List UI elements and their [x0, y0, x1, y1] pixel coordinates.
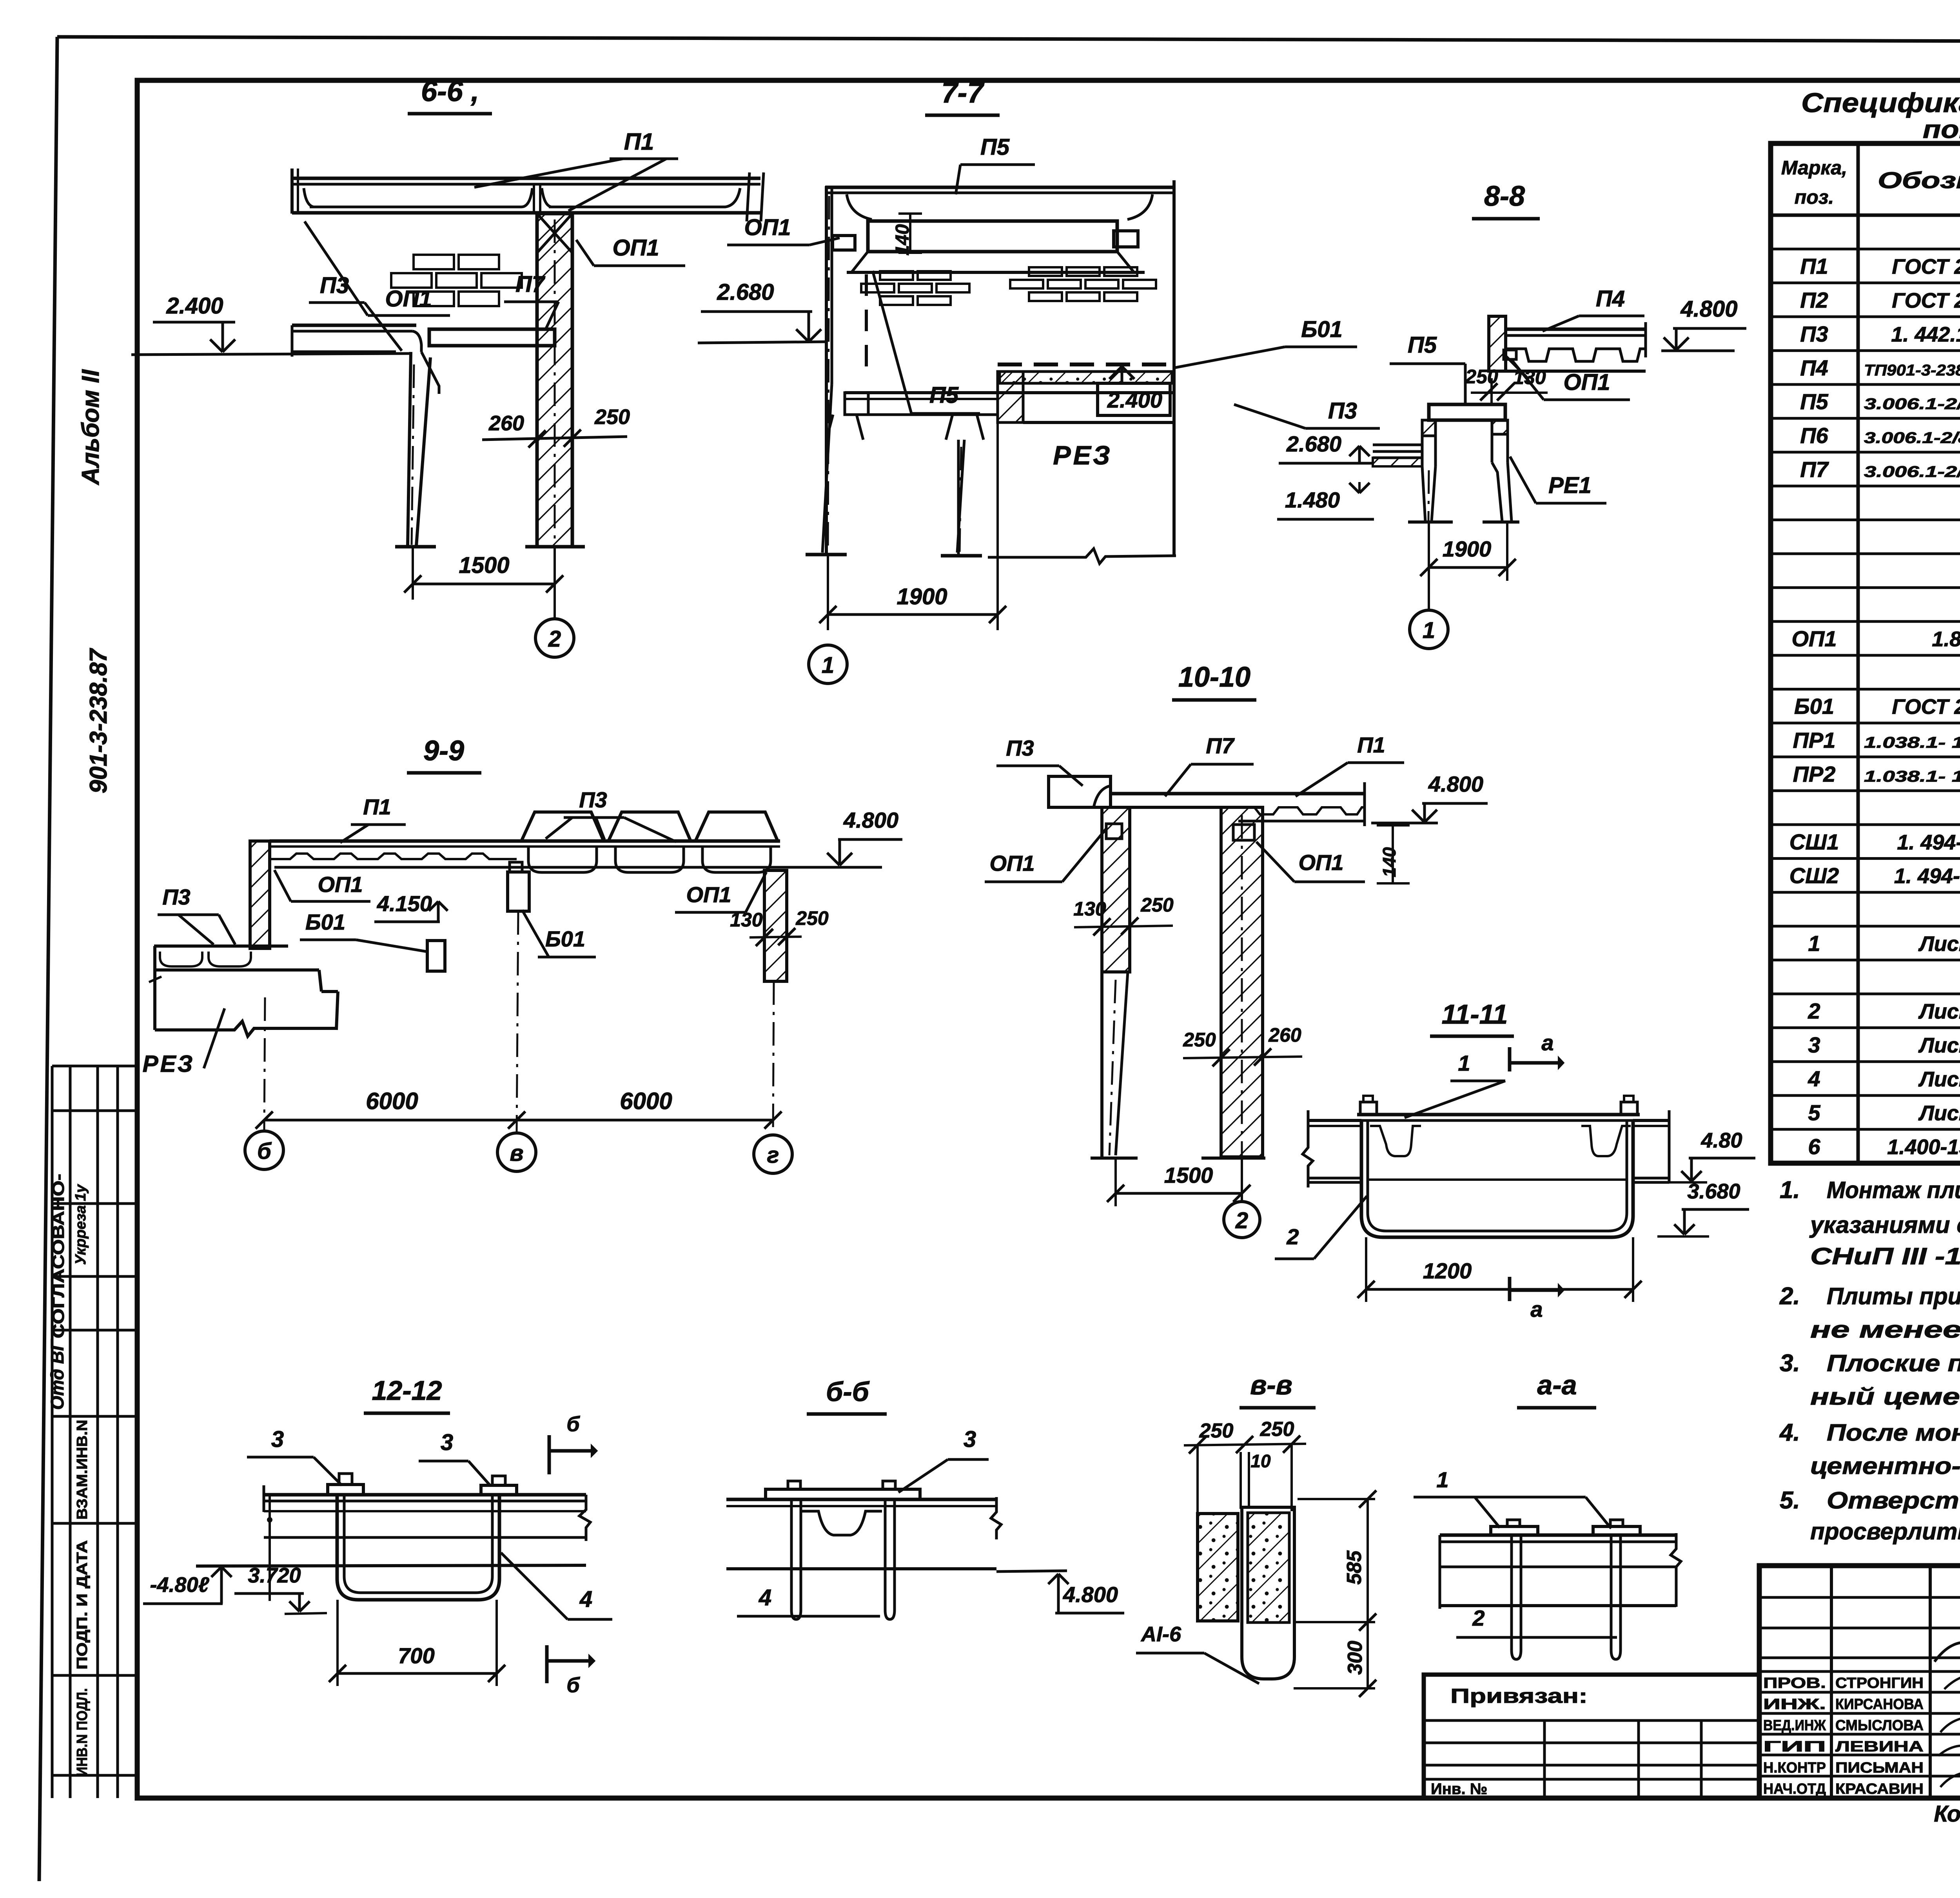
svg-text:П3: П3	[162, 885, 190, 909]
svg-text:Лист КЖ17: Лист КЖ17	[1918, 1101, 1960, 1125]
svg-text:3: 3	[271, 1427, 284, 1452]
notes text block	[1779, 1177, 1960, 1545]
svg-text:4.800: 4.800	[1063, 1582, 1118, 1607]
svg-text:П2: П2	[1800, 288, 1828, 312]
svg-text:250: 250	[1465, 366, 1498, 388]
svg-text:Б01: Б01	[1301, 317, 1343, 342]
svg-text:2.400: 2.400	[1107, 388, 1162, 412]
svg-text:П1: П1	[624, 129, 654, 155]
table header texts	[1781, 157, 1960, 208]
section 10-10 OP1 pad left	[1106, 824, 1122, 839]
section 8-8 right support column	[1492, 420, 1508, 434]
svg-text:П5: П5	[980, 134, 1010, 160]
svg-text:ПР2: ПР2	[1793, 761, 1836, 786]
svg-text:10: 10	[1250, 1451, 1271, 1471]
svg-text:СМЫСЛОВА: СМЫСЛОВА	[1835, 1717, 1924, 1734]
svg-text:ИНВ.N ПОДЛ.: ИНВ.N ПОДЛ.	[74, 1688, 91, 1777]
svg-text:Укрреза 1у: Укрреза 1у	[73, 1184, 89, 1265]
section 8-8 axis circle 1	[1428, 581, 1430, 611]
section 10-10 dim 1500	[1114, 1158, 1117, 1206]
svg-text:3.006.1-2/82.1-2-2.0-20: 3.006.1-2/82.1-2-2.0-20	[1864, 463, 1960, 480]
section 9-9 lower P3 plates	[154, 946, 319, 970]
svg-text:130: 130	[1073, 898, 1106, 920]
svg-text:1900: 1900	[1443, 537, 1492, 561]
svg-text:2.400: 2.400	[166, 293, 223, 319]
svg-text:9-9: 9-9	[423, 735, 464, 767]
svg-text:1.480: 1.480	[1285, 488, 1340, 512]
svg-text:3.680: 3.680	[1687, 1180, 1740, 1203]
section 7-7 beam B01 dashed	[998, 363, 1172, 366]
svg-text:1.869.1- 1: 1.869.1- 1	[1932, 627, 1960, 651]
svg-text:Монтаж плит производить в: Монтаж плит производить в соответствии с	[1827, 1177, 1960, 1203]
section 8-8 left support column	[1422, 420, 1436, 436]
section 9-9 axes dash-dot	[264, 997, 265, 1131]
svg-text:250: 250	[594, 405, 630, 429]
svg-text:-4.80ℓ: -4.80ℓ	[150, 1573, 210, 1597]
section 6-6 axis circle 2	[535, 619, 574, 657]
svg-text:ОП1: ОП1	[990, 851, 1035, 876]
svg-text:П5: П5	[1408, 332, 1437, 358]
svg-text:П7: П7	[1206, 733, 1235, 758]
section 7-7 slab P3	[998, 391, 1174, 394]
section 10-10 plate P3	[1049, 776, 1111, 807]
svg-text:6000: 6000	[366, 1088, 418, 1114]
svg-text:Инв. №: Инв. №	[1431, 1780, 1487, 1798]
section 7-7 bricks	[861, 271, 969, 305]
svg-text:П4: П4	[1596, 286, 1625, 312]
section b-b slab right break	[991, 1497, 1001, 1539]
svg-text:Лист КЖ17: Лист КЖ17	[1918, 1034, 1960, 1057]
section 7-7 ground line with break	[988, 549, 1176, 564]
svg-text:П7: П7	[515, 272, 546, 297]
svg-text:ГОСТ 22701.1- 77: ГОСТ 22701.1- 77	[1892, 255, 1960, 279]
section 11-11 slab left	[1308, 1119, 1361, 1122]
svg-text:4.150: 4.150	[377, 891, 432, 916]
svg-text:1: 1	[1458, 1051, 1470, 1075]
svg-text:а: а	[1530, 1297, 1543, 1322]
svg-text:1. 494- 24. Вып.1: 1. 494- 24. Вып.1	[1894, 865, 1960, 888]
section 10-10 right wall	[1221, 807, 1263, 1157]
section 7-7 right wall edge	[1172, 180, 1176, 557]
svg-text:ОП1: ОП1	[1299, 850, 1344, 875]
section 12-12 slab left end	[263, 1485, 265, 1512]
section b-b plate item 3	[766, 1489, 920, 1499]
svg-text:3.006.1-2/82.1-2-1.0-053: 3.006.1-2/82.1-2-1.0-053	[1864, 430, 1960, 447]
svg-text:цементно-песчаным раствором: цементно-песчаным раствором М150	[1810, 1453, 1960, 1479]
section 12-12 slab right break	[579, 1495, 590, 1541]
section 8-8 dim 1900	[1428, 522, 1430, 581]
section 6-6 dim 1500	[412, 547, 414, 600]
svg-text:140: 140	[1379, 847, 1399, 877]
svg-text:ИНЖ.: ИНЖ.	[1763, 1696, 1826, 1713]
svg-text:ТП901-3-238.87-КЖИ21.0.0.0: ТП901-3-238.87-КЖИ21.0.0.0	[1864, 362, 1960, 379]
svg-text:6000: 6000	[620, 1088, 672, 1114]
svg-text:ОП1: ОП1	[318, 872, 363, 897]
Привязан box	[1424, 1675, 1759, 1798]
svg-text:П1: П1	[1800, 254, 1828, 279]
section 9-9 right wall hatched	[764, 870, 787, 981]
svg-text:покрытия в осях 1÷3.: покрытия в осях 1÷3.	[1923, 115, 1960, 143]
svg-text:РЕ1: РЕ1	[1548, 473, 1592, 498]
svg-text:Обозначение: Обозначение	[1878, 168, 1960, 193]
svg-text:г: г	[767, 1142, 779, 1168]
svg-text:3.: 3.	[1780, 1350, 1800, 1377]
section 8-8 left floor slab	[1373, 444, 1422, 446]
svg-text:КИРСАНОВА: КИРСАНОВА	[1835, 1696, 1924, 1713]
svg-text:П3: П3	[1328, 398, 1357, 424]
section a-a slab edges	[1439, 1535, 1441, 1609]
svg-text:ПР1: ПР1	[1793, 728, 1836, 752]
section 6-6 wall hatched	[537, 214, 572, 547]
svg-text:1: 1	[1808, 931, 1820, 955]
section 6-6 slab P3 left	[292, 325, 439, 547]
svg-text:Лист КЖ17: Лист КЖ17	[1918, 1068, 1960, 1091]
svg-text:НАЧ.ОТД: НАЧ.ОТД	[1763, 1781, 1826, 1797]
svg-text:11-11: 11-11	[1442, 999, 1508, 1030]
svg-text:ЛЕВИНА: ЛЕВИНА	[1835, 1738, 1924, 1755]
section 11-11 section mark a top	[1508, 1047, 1512, 1071]
svg-text:просверлить по месту.: просверлить по месту.	[1810, 1518, 1960, 1545]
svg-text:3: 3	[1808, 1033, 1820, 1057]
svg-text:Н.КОНТР: Н.КОНТР	[1763, 1760, 1826, 1776]
svg-text:4.: 4.	[1779, 1419, 1800, 1446]
svg-text:4: 4	[1808, 1066, 1820, 1091]
svg-text:Отверстия в плитах для уста: Отверстия в плитах для установки подвесо…	[1827, 1487, 1960, 1514]
svg-text:Привязан:: Привязан:	[1450, 1685, 1588, 1708]
section 11-11 dim 1200	[1365, 1237, 1367, 1302]
svg-text:ный цементный раствор М100.: ный цементный раствор М100.	[1810, 1383, 1960, 1410]
svg-text:не менее, чем в 3х точках.: не менее, чем в 3х точках.	[1810, 1316, 1960, 1343]
svg-text:б-б: б-б	[826, 1376, 870, 1407]
svg-text:РЕЗ: РЕЗ	[143, 1051, 195, 1077]
svg-text:П1: П1	[1357, 732, 1385, 757]
svg-text:Б01: Б01	[545, 926, 585, 951]
section 10-10 left wall	[1102, 807, 1130, 972]
section 8-8 slab P5	[1429, 404, 1505, 420]
svg-text:250: 250	[1183, 1029, 1216, 1051]
svg-text:2: 2	[1472, 1606, 1485, 1630]
svg-text:б: б	[566, 1673, 580, 1697]
svg-text:1. 442.1- 2 .Вып.1: 1. 442.1- 2 .Вып.1	[1891, 323, 1960, 346]
section 8-8 slab P4 ribbed	[1504, 322, 1646, 371]
svg-text:б: б	[566, 1412, 580, 1436]
svg-text:Отд ВГ: Отд ВГ	[47, 1339, 67, 1410]
svg-text:П4: П4	[1800, 355, 1828, 380]
section 12-12 U-hanger	[337, 1495, 499, 1600]
section 9-9 slab P3 field with trapezoids	[517, 812, 780, 872]
svg-text:2: 2	[1235, 1208, 1248, 1233]
svg-text:а: а	[1541, 1030, 1553, 1055]
svg-text:ОП1: ОП1	[612, 235, 659, 261]
title block main frame	[1759, 1566, 1960, 1798]
section 10-10 axis circle 2	[1241, 1193, 1243, 1202]
svg-text:2: 2	[1286, 1224, 1299, 1249]
section 7-7 top slab P5	[825, 187, 1174, 272]
svg-text:12-12: 12-12	[372, 1375, 442, 1406]
section 7-7 left column	[825, 186, 828, 555]
svg-text:300: 300	[1344, 1641, 1367, 1675]
signatures squiggles	[1944, 1676, 1960, 1698]
svg-text:П3: П3	[1006, 736, 1034, 760]
svg-text:П3: П3	[1800, 321, 1828, 346]
table rows text	[1789, 219, 1960, 1166]
svg-text:Копировал:: Копировал:	[1934, 1801, 1960, 1827]
svg-text:ГОСТ 2.2701.2-77: ГОСТ 2.2701.2-77	[1892, 289, 1960, 312]
svg-text:1.038.1- 1.1 090000-01: 1.038.1- 1.1 090000-01	[1864, 768, 1960, 785]
svg-text:4.80: 4.80	[1700, 1129, 1742, 1152]
section a-a bolt plates	[1491, 1526, 1538, 1535]
section 12-12 section mark b top	[548, 1435, 551, 1474]
section 11-11 lid bolts	[1360, 1102, 1377, 1115]
svg-text:250: 250	[1140, 894, 1174, 916]
svg-text:2: 2	[548, 626, 561, 652]
svg-text:СШ2: СШ2	[1789, 863, 1839, 888]
svg-text:4: 4	[759, 1585, 771, 1610]
svg-text:КРАСАВИН: КРАСАВИН	[1835, 1781, 1924, 1797]
svg-text:250: 250	[795, 907, 829, 929]
sidebar stamp grid	[52, 1066, 137, 1798]
svg-text:П3: П3	[320, 273, 349, 298]
section 10-10 OP1 pad right	[1233, 825, 1254, 840]
svg-text:7-7: 7-7	[942, 76, 985, 109]
svg-text:6-6 ,: 6-6 ,	[421, 75, 479, 107]
section b-b slab lines	[726, 1498, 996, 1501]
svg-text:130: 130	[1513, 366, 1546, 388]
section 9-9 beam B01 at axis B	[508, 872, 529, 911]
section 9-9 REZ wall	[149, 946, 338, 1036]
svg-text:1.: 1.	[1780, 1177, 1800, 1204]
svg-text:Плиты приварить к закладным: Плиты приварить к закладным деталям опор	[1827, 1283, 1960, 1309]
section 8-8 wall hatched	[1489, 316, 1506, 371]
title block personnel rows	[1759, 1671, 1960, 1776]
svg-text:ВЗАМ.ИНВ.N: ВЗАМ.ИНВ.N	[74, 1420, 91, 1520]
svg-text:ОП1: ОП1	[1792, 626, 1837, 651]
section 10-10 slab P7	[1111, 792, 1238, 796]
section v-v extension lines	[1196, 1445, 1199, 1514]
section 7-7 hidden wall dashed	[865, 274, 868, 374]
title block upper-left rows	[1759, 1596, 1960, 1599]
section 9-9 dim 6000+6000	[264, 1119, 773, 1122]
svg-text:После монтажа швы между пл: После монтажа швы между плитами залить	[1827, 1419, 1960, 1446]
svg-text:РЕЗ: РЕЗ	[1053, 441, 1112, 470]
svg-text:П5: П5	[929, 383, 959, 408]
section b-b rib void	[802, 1511, 882, 1535]
section 7-7 level 2.400 boxed	[1098, 383, 1170, 415]
svg-text:Альбом II: Альбом II	[77, 369, 104, 486]
svg-text:700: 700	[398, 1643, 434, 1668]
svg-text:2.: 2.	[1779, 1283, 1800, 1310]
section 11-11 tank body	[1361, 1120, 1633, 1237]
section a-a hanger rods	[1512, 1535, 1521, 1659]
svg-text:ПОДП. И ДАТА: ПОДП. И ДАТА	[74, 1540, 91, 1670]
svg-text:поз.: поз.	[1795, 186, 1834, 208]
svg-text:3: 3	[441, 1430, 453, 1455]
svg-text:в: в	[510, 1140, 523, 1166]
svg-text:ОП1: ОП1	[1563, 370, 1610, 395]
svg-text:ПИСЬМАН: ПИСЬМАН	[1835, 1760, 1924, 1776]
svg-text:СТРОНГИН: СТРОНГИН	[1835, 1675, 1924, 1691]
svg-text:6: 6	[1808, 1134, 1820, 1159]
svg-text:5.: 5.	[1780, 1487, 1800, 1514]
svg-text:2: 2	[1808, 999, 1820, 1023]
svg-text:а-а: а-а	[1537, 1370, 1577, 1400]
section 6-6 slab P7	[429, 329, 555, 346]
section 11-11 tank lid	[1357, 1113, 1640, 1117]
title block verticals	[1830, 1566, 1833, 1798]
svg-text:П3: П3	[579, 787, 607, 812]
svg-text:2.680: 2.680	[1286, 431, 1341, 456]
section 11-11 slab ribs inside	[1370, 1126, 1421, 1156]
svg-text:3: 3	[964, 1427, 976, 1452]
svg-text:260: 260	[1268, 1024, 1301, 1046]
svg-text:4.800: 4.800	[1680, 296, 1737, 322]
svg-text:б: б	[257, 1138, 272, 1164]
svg-text:1: 1	[1436, 1467, 1448, 1492]
svg-text:Лист КЖ17: Лист КЖ17	[1918, 1000, 1960, 1023]
svg-text:Лист КЖ17: Лист КЖ17	[1918, 932, 1960, 955]
svg-text:СНиП III -16-80.: СНиП III -16-80.	[1810, 1243, 1960, 1269]
section v-v right concrete block	[1248, 1513, 1289, 1622]
svg-text:Б01: Б01	[1794, 694, 1834, 719]
outer page border top	[57, 37, 1960, 42]
outer page border left	[39, 37, 57, 1881]
svg-text:1.400-15.81.130-56: 1.400-15.81.130-56	[1887, 1135, 1960, 1159]
svg-text:СШ1: СШ1	[1789, 829, 1839, 854]
section 9-9 slab P1 field	[270, 841, 882, 867]
section a-a slab lines	[1440, 1534, 1676, 1537]
svg-text:4.800: 4.800	[1428, 772, 1483, 796]
svg-text:5: 5	[1808, 1100, 1820, 1125]
svg-text:901-3-238.87: 901-3-238.87	[85, 648, 112, 793]
svg-text:СОГЛАСОВАНО-: СОГЛАСОВАНО-	[49, 1174, 67, 1338]
section 12-12 slab lines	[264, 1493, 586, 1497]
svg-text:10-10: 10-10	[1178, 662, 1250, 693]
svg-text:П7: П7	[1800, 457, 1829, 482]
section 6-6 brick symbol	[391, 255, 522, 306]
section 7-7 beam hatched strip	[1000, 372, 1172, 383]
svg-text:1900: 1900	[897, 584, 947, 609]
section 7-7 axis circle 1	[809, 645, 847, 683]
svg-text:1500: 1500	[1164, 1163, 1213, 1187]
svg-text:ГИП: ГИП	[1763, 1738, 1826, 1755]
svg-text:ОП1: ОП1	[385, 286, 432, 312]
section 7-7 dim 1900	[827, 555, 829, 630]
svg-text:3.720: 3.720	[248, 1564, 301, 1587]
svg-text:1. 494- 24 Вып.1: 1. 494- 24 Вып.1	[1897, 830, 1960, 854]
section 12-12 dim 700	[336, 1600, 339, 1686]
section b-b hanger rods	[791, 1499, 801, 1619]
personnel roles and names	[1763, 1675, 1924, 1797]
section 12-12 bolt right	[481, 1485, 517, 1495]
svg-text:ПРОВ.: ПРОВ.	[1763, 1675, 1826, 1691]
svg-text:указаниями серий 1. 442. 1 -: указаниями серий 1. 442. 1 -2, Вып. 1; 3…	[1809, 1212, 1960, 1238]
section 9-9 beam B01 at wall	[427, 941, 445, 971]
svg-text:1: 1	[822, 653, 834, 678]
svg-text:1.038.1- 1.1 090000-05: 1.038.1- 1.1 090000-05	[1864, 734, 1960, 751]
section 9-9 axis circles	[245, 1131, 283, 1169]
svg-text:250: 250	[1260, 1418, 1294, 1441]
section 6-6 slab P1 top	[292, 169, 764, 221]
svg-text:1: 1	[1423, 618, 1435, 643]
svg-text:Марка,: Марка,	[1781, 157, 1847, 179]
svg-text:АI-6: АI-6	[1140, 1622, 1181, 1646]
section 10-10 slab P1 ribbed	[1238, 782, 1365, 826]
svg-text:ОП1: ОП1	[744, 215, 791, 240]
svg-text:2.680: 2.680	[717, 279, 774, 305]
svg-text:Плоские плиты укладывать на: Плоские плиты укладывать на свежеуложен-	[1827, 1350, 1960, 1376]
svg-text:3.006.1-2/82.1-2-2.0-37: 3.006.1-2/82.1-2-2.0-37	[1864, 395, 1960, 413]
svg-text:4: 4	[579, 1586, 592, 1612]
svg-text:П5: П5	[1800, 389, 1828, 414]
svg-text:П1: П1	[363, 794, 391, 819]
svg-text:ГОСТ 24893.1- 81: ГОСТ 24893.1- 81	[1892, 695, 1960, 719]
section v-v hanger bar	[1242, 1507, 1294, 1679]
svg-text:585: 585	[1343, 1550, 1366, 1585]
section v-v left concrete block	[1198, 1514, 1238, 1621]
section 12-12 section mark b bottom	[545, 1645, 549, 1683]
section 7-7 lower slab P5	[826, 393, 998, 556]
section 9-9 left wall hatched	[250, 841, 270, 948]
svg-text:Спецификация к схеме располож: Спецификация к схеме расположения плит	[1801, 87, 1960, 118]
svg-text:в-в: в-в	[1250, 1370, 1292, 1400]
svg-text:1500: 1500	[459, 553, 509, 578]
section 11-11 section mark a bottom	[1508, 1277, 1512, 1301]
svg-text:4.800: 4.800	[843, 808, 898, 832]
svg-text:130: 130	[730, 909, 763, 931]
section 12-12 bolt left	[328, 1485, 363, 1495]
svg-text:ВЕД.ИНЖ: ВЕД.ИНЖ	[1763, 1717, 1826, 1734]
svg-text:Б01: Б01	[305, 910, 345, 934]
specification table grid	[1771, 143, 1960, 1163]
svg-text:260: 260	[488, 412, 524, 435]
svg-text:ОП1: ОП1	[686, 882, 731, 907]
svg-text:П6: П6	[1800, 423, 1828, 448]
svg-text:1200: 1200	[1423, 1258, 1472, 1283]
section 11-11 slab right	[1633, 1119, 1669, 1122]
svg-text:8-8: 8-8	[1484, 181, 1525, 212]
